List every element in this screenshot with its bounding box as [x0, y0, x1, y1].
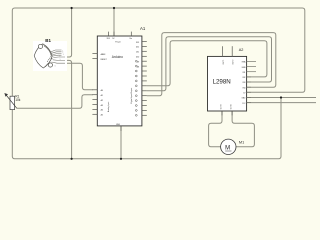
- wire L298N GND to bottom rail and off right: [247, 97, 316, 99]
- svg-text:IN2: IN2: [243, 77, 246, 79]
- wire Arduino GND pin to bottom rail: [120, 126, 122, 159]
- right pin stubs: [247, 61, 256, 102]
- svg-text:OUT4: OUT4: [230, 104, 232, 109]
- driver U2 L298N (A2): [208, 46, 257, 115]
- bottom pin stubs OUT3 OUT4: [222, 111, 232, 115]
- wire B1 5V to top rail: [65, 8, 72, 57]
- svg-text:IN4: IN4: [243, 87, 246, 89]
- node junction dots: [71, 7, 283, 160]
- hatch dots along lower-right edge: [45, 56, 53, 66]
- svg-text:D11: D11: [136, 52, 139, 54]
- inner edge line: [44, 46, 52, 56]
- wire pot wiper to Arduino A1: [17, 95, 93, 109]
- svg-text:3V3: 3V3: [107, 38, 110, 40]
- potentiometer R1: [4, 93, 20, 110]
- top pin stubs: [109, 32, 132, 36]
- svg-text:Vin: Vin: [129, 38, 132, 40]
- wire B1 GND to bottom rail: [65, 60, 72, 158]
- svg-text:OUT3: OUT3: [220, 104, 222, 109]
- pin stubs fanning right: [51, 50, 65, 63]
- svg-text:M1: M1: [239, 140, 244, 144]
- left pin stubs A0-A5: [92, 90, 97, 115]
- top pin stubs OUT1 OUT2: [223, 46, 233, 56]
- wire top rail 5V from L298N 5V pin around periphery to pot top: [12, 8, 305, 96]
- wire Arduino 5V pin to top rail: [113, 8, 115, 36]
- svg-text:D12: D12: [136, 47, 139, 49]
- top/bottom pin labels rotated: [220, 60, 234, 110]
- svg-text:A1: A1: [140, 26, 146, 31]
- svg-text:Arduino: Arduino: [112, 55, 123, 59]
- svg-text:B1: B1: [45, 38, 51, 43]
- svg-text:OUT1: OUT1: [223, 60, 225, 65]
- svg-text:OUT2: OUT2: [233, 60, 235, 65]
- motor B1 (with encoder): [33, 38, 67, 71]
- node L298N-GND on gnd wire: [280, 96, 282, 98]
- svg-text:D8: D8: [137, 66, 139, 68]
- svg-text:D9: D9: [137, 62, 139, 64]
- right pin PWM circles: [135, 60, 137, 116]
- pin numbers: [55, 50, 64, 67]
- svg-text:D10: D10: [136, 57, 139, 59]
- left pin stubs AREF RESET: [92, 54, 97, 59]
- node B1-GND on bottom rail: [71, 158, 73, 160]
- svg-text:D13: D13: [136, 42, 139, 44]
- svg-text:10k: 10k: [15, 98, 21, 102]
- wire bottom rail GND: [12, 98, 281, 159]
- svg-text:L298N: L298N: [213, 79, 231, 86]
- motor M1: [221, 139, 245, 154]
- wire L298N 12V off right: [247, 102, 316, 104]
- svg-text:A2: A2: [239, 48, 244, 52]
- wire loop T2 Arduino D3 to L298N IN2: [147, 37, 272, 91]
- svg-text:IN3: IN3: [243, 82, 246, 84]
- wire B1 encoder to Arduino A0: [65, 63, 93, 90]
- svg-text:Power: Power: [115, 42, 121, 44]
- svg-text:IN1: IN1: [243, 72, 246, 74]
- wire L298N OUT3 to motor left: [209, 111, 222, 147]
- svg-text:GND: GND: [116, 124, 121, 126]
- wire 5V/GND perimeter loop: [12, 8, 305, 159]
- wire L298N OUT4 to motor right: [232, 111, 254, 147]
- Arduino U1 (A1): [92, 26, 146, 131]
- wire loop T1 Arduino D4 to L298N IN1: [147, 41, 267, 86]
- bottom pin stub: [120, 126, 122, 131]
- pin labels: [101, 38, 133, 126]
- svg-text:RESET: RESET: [101, 59, 108, 61]
- body: [34, 44, 52, 68]
- right pin labels: [242, 61, 247, 105]
- node B1-5V on top rail: [71, 7, 73, 9]
- node Arduino-GND on bottom rail: [120, 158, 122, 160]
- node Arduino-5V on top rail: [113, 7, 115, 9]
- wire loop T3 Arduino D2 to L298N ENA: [147, 33, 276, 96]
- right pin stubs D13-D0: [142, 42, 147, 116]
